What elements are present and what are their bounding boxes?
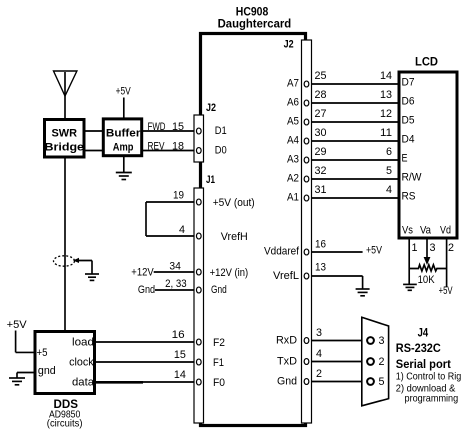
svg-text:3: 3 <box>430 242 436 254</box>
svg-text:27: 27 <box>315 108 327 120</box>
svg-text:TxD: TxD <box>277 356 297 368</box>
svg-text:A2: A2 <box>287 173 299 185</box>
svg-text:+5V: +5V <box>116 86 132 98</box>
svg-text:1) Control to Rig: 1) Control to Rig <box>396 371 462 383</box>
svg-text:D7: D7 <box>402 77 415 89</box>
svg-text:gnd: gnd <box>38 365 56 377</box>
svg-text:+5V: +5V <box>439 285 453 297</box>
svg-text:data: data <box>72 377 95 389</box>
svg-text:15: 15 <box>174 349 186 361</box>
svg-text:15: 15 <box>172 121 184 133</box>
svg-text:R/W: R/W <box>402 172 423 184</box>
svg-text:+12V: +12V <box>131 267 154 279</box>
svg-text:RS: RS <box>402 191 416 203</box>
svg-text:+5V: +5V <box>366 245 383 257</box>
svg-text:F2: F2 <box>213 337 225 349</box>
svg-text:(circuits): (circuits) <box>47 419 83 430</box>
svg-text:D4: D4 <box>402 134 415 146</box>
svg-text:J1: J1 <box>206 174 215 186</box>
svg-text:Gnd: Gnd <box>138 284 155 296</box>
svg-text:clock: clock <box>69 357 94 369</box>
svg-text:+5V: +5V <box>7 319 28 331</box>
svg-text:D1: D1 <box>215 125 227 137</box>
svg-text:32: 32 <box>315 165 327 177</box>
svg-text:3: 3 <box>316 327 322 339</box>
svg-text:14: 14 <box>380 70 392 82</box>
svg-text:E: E <box>402 153 408 165</box>
svg-text:30: 30 <box>315 127 327 139</box>
svg-text:13: 13 <box>380 89 392 101</box>
svg-text:25: 25 <box>315 70 327 82</box>
svg-text:LCD: LCD <box>415 55 438 69</box>
svg-text:J2: J2 <box>284 39 294 51</box>
svg-text:Bridge: Bridge <box>45 142 85 154</box>
svg-text:A3: A3 <box>287 154 299 166</box>
svg-text:D0: D0 <box>215 144 227 156</box>
svg-text:34: 34 <box>169 260 181 272</box>
svg-text:4: 4 <box>179 224 185 236</box>
svg-text:Vd: Vd <box>440 224 451 236</box>
svg-text:2: 2 <box>316 368 322 380</box>
svg-text:A1: A1 <box>287 192 299 204</box>
svg-text:A7: A7 <box>287 78 299 90</box>
svg-text:19: 19 <box>173 189 184 201</box>
svg-text:RS-232C: RS-232C <box>396 341 441 355</box>
svg-text:10K: 10K <box>418 274 436 286</box>
svg-text:Daughtercard: Daughtercard <box>218 17 292 31</box>
svg-text:SWR: SWR <box>52 128 78 140</box>
svg-text:16: 16 <box>315 239 326 251</box>
svg-text:5: 5 <box>379 376 385 388</box>
svg-text:programming: programming <box>405 392 459 404</box>
svg-text:2: 2 <box>448 242 454 254</box>
svg-text:Serial port: Serial port <box>396 357 451 371</box>
svg-text:2, 33: 2, 33 <box>165 278 187 290</box>
svg-text:Amp: Amp <box>113 142 134 154</box>
svg-text:31: 31 <box>315 184 327 196</box>
svg-text:D5: D5 <box>402 115 415 127</box>
svg-text:J2: J2 <box>206 102 216 114</box>
svg-text:D6: D6 <box>402 96 415 108</box>
svg-text:29: 29 <box>315 146 327 158</box>
svg-text:FWD: FWD <box>148 121 166 133</box>
svg-text:REV: REV <box>148 141 165 153</box>
svg-text:VrefL: VrefL <box>273 270 299 282</box>
svg-text:6: 6 <box>386 146 392 158</box>
svg-text:+5V (out): +5V (out) <box>213 197 255 209</box>
svg-text:28: 28 <box>315 89 327 101</box>
svg-text:16: 16 <box>172 329 185 341</box>
svg-text:F0: F0 <box>213 377 225 389</box>
svg-text:12: 12 <box>380 108 392 120</box>
svg-text:13: 13 <box>315 262 326 274</box>
svg-text:load: load <box>72 337 94 349</box>
svg-text:11: 11 <box>380 127 392 139</box>
svg-text:A4: A4 <box>287 135 299 147</box>
svg-text:3: 3 <box>379 335 385 347</box>
svg-text:+5: +5 <box>37 347 48 359</box>
svg-text:Vddaref: Vddaref <box>264 246 300 258</box>
svg-text:F1: F1 <box>213 357 224 369</box>
svg-text:2: 2 <box>379 356 385 368</box>
svg-text:18: 18 <box>172 141 184 153</box>
svg-text:Vs: Vs <box>402 224 413 236</box>
svg-text:Gnd: Gnd <box>211 284 227 296</box>
svg-text:J4: J4 <box>418 326 429 340</box>
svg-text:A6: A6 <box>287 97 299 109</box>
svg-text:4: 4 <box>316 348 322 360</box>
svg-text:A5: A5 <box>287 116 299 128</box>
svg-text:1: 1 <box>412 242 418 254</box>
svg-text:+12V (in): +12V (in) <box>210 267 249 279</box>
svg-text:Va: Va <box>420 224 432 236</box>
svg-text:VrefH: VrefH <box>221 231 248 243</box>
svg-text:RxD: RxD <box>276 335 297 347</box>
svg-text:14: 14 <box>174 369 186 381</box>
svg-text:5: 5 <box>386 165 392 177</box>
svg-text:Gnd: Gnd <box>277 376 297 388</box>
svg-text:Buffer: Buffer <box>106 128 141 140</box>
svg-text:4: 4 <box>386 184 392 196</box>
